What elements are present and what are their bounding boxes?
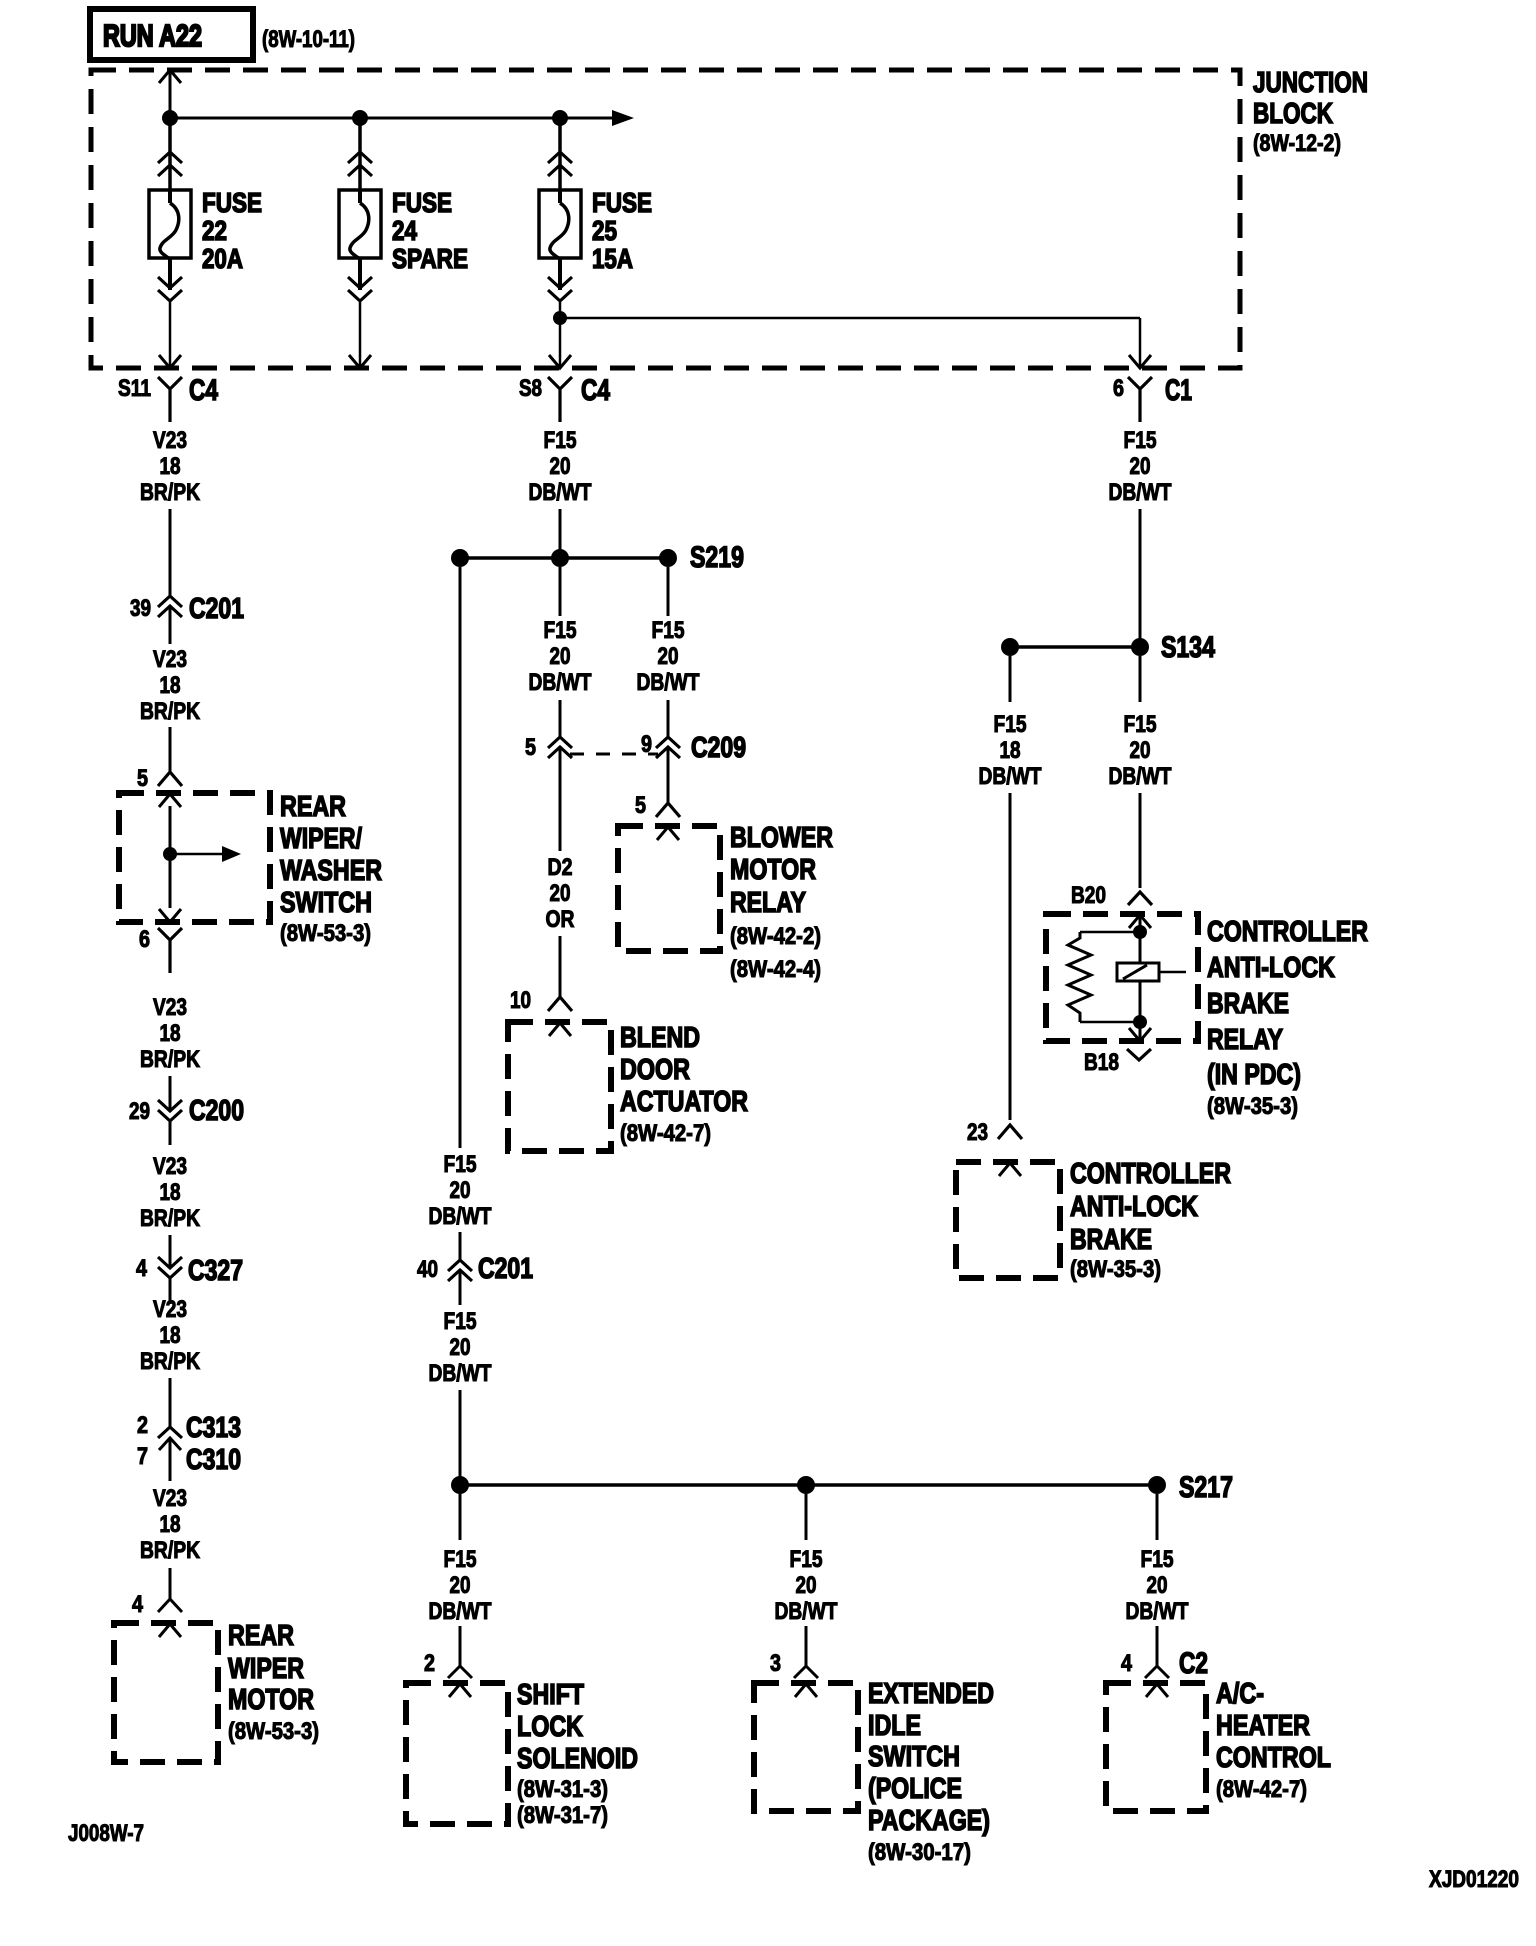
svg-text:S219: S219	[690, 541, 744, 574]
node S219 middle	[551, 549, 569, 567]
wire label F15 20 DB/WT blower branch	[637, 617, 700, 696]
svg-text:OR: OR	[546, 906, 575, 933]
svg-text:20: 20	[1130, 453, 1151, 480]
connector pin B18	[1084, 1049, 1151, 1076]
relay coil bottom node	[1133, 1015, 1147, 1029]
a/c heater control box	[1106, 1683, 1206, 1811]
fuse 24 SPARE	[339, 190, 381, 259]
svg-text:JUNCTION: JUNCTION	[1253, 67, 1368, 99]
svg-text:A/C-: A/C-	[1216, 1678, 1264, 1710]
svg-text:CONTROL: CONTROL	[1216, 1742, 1331, 1774]
svg-text:(8W-42-2): (8W-42-2)	[730, 923, 821, 950]
svg-text:29: 29	[129, 1098, 150, 1125]
connector pin 4 C2	[1121, 1647, 1208, 1680]
wire S134 to relay	[1139, 656, 1142, 888]
svg-text:V23: V23	[153, 994, 187, 1021]
bus arrowhead	[612, 110, 634, 126]
svg-text:C4: C4	[189, 374, 218, 407]
svg-text:C200: C200	[189, 1095, 244, 1127]
label XJD01220	[1429, 1866, 1519, 1893]
connector chevrons above fuse 25	[548, 152, 572, 176]
svg-text:24: 24	[392, 215, 417, 246]
svg-text:18: 18	[1000, 737, 1021, 764]
svg-text:SWITCH: SWITCH	[868, 1741, 960, 1773]
wire S217 to extended idle switch	[805, 1494, 808, 1666]
svg-text:S217: S217	[1179, 1471, 1233, 1504]
node S134 left	[1001, 638, 1019, 656]
extended idle switch box	[754, 1683, 858, 1811]
label JUNCTION BLOCK (8W-12-2)	[1253, 67, 1368, 157]
svg-text:C201: C201	[189, 593, 244, 625]
junction node at fuse 24	[352, 110, 368, 126]
svg-text:WASHER: WASHER	[280, 855, 382, 887]
connector S8 C4	[519, 374, 610, 422]
svg-text:BLEND: BLEND	[620, 1022, 700, 1054]
arrow into blower motor relay	[657, 827, 679, 840]
svg-text:20A: 20A	[202, 243, 243, 274]
svg-text:BR/PK: BR/PK	[140, 1348, 201, 1375]
relay coil	[1117, 963, 1186, 981]
svg-text:F15: F15	[994, 711, 1027, 738]
svg-text:DB/WT: DB/WT	[637, 669, 700, 696]
relay coil top node	[1133, 925, 1147, 939]
svg-text:20: 20	[796, 1572, 817, 1599]
label BLOWER MOTOR RELAY (8W-42-2) (8W-42-4)	[730, 822, 833, 983]
wire label F15 20 DB/WT extended idle	[775, 1546, 838, 1625]
label BLEND DOOR ACTUATOR (8W-42-7)	[620, 1022, 748, 1147]
svg-text:BR/PK: BR/PK	[140, 479, 201, 506]
svg-text:C310: C310	[186, 1444, 241, 1476]
wire label F15 20 DB/WT below C201	[429, 1308, 492, 1387]
svg-text:BR/PK: BR/PK	[140, 1046, 201, 1073]
rear wiper motor box	[114, 1623, 218, 1762]
svg-text:(8W-12-2): (8W-12-2)	[1253, 130, 1341, 157]
svg-text:PACKAGE): PACKAGE)	[868, 1805, 990, 1837]
wire below fuse 24	[358, 258, 362, 290]
wire fuse 25 to junction block edge	[559, 302, 562, 366]
svg-text:C209: C209	[691, 732, 746, 764]
svg-text:(8W-42-7): (8W-42-7)	[1216, 1776, 1307, 1803]
controller anti-lock brake relay box	[1046, 914, 1198, 1041]
wire S219 to C209	[667, 567, 670, 737]
svg-text:J008W-7: J008W-7	[68, 1820, 144, 1847]
node S217 left	[451, 1476, 469, 1494]
svg-text:5: 5	[137, 765, 148, 792]
svg-text:10: 10	[510, 987, 531, 1014]
blend door actuator box	[508, 1022, 611, 1151]
label A/C-HEATER CONTROL (8W-42-7)	[1216, 1678, 1331, 1803]
svg-text:F15: F15	[1141, 1546, 1174, 1573]
fuse 22 20A	[149, 190, 191, 259]
svg-text:4: 4	[136, 1255, 148, 1282]
rear wiper/washer switch box	[119, 793, 270, 922]
svg-text:BR/PK: BR/PK	[140, 1205, 201, 1232]
svg-text:IDLE: IDLE	[868, 1710, 921, 1742]
svg-text:20: 20	[550, 880, 571, 907]
svg-text:S134: S134	[1161, 631, 1215, 664]
wire label F15 20 DB/WT above C201	[429, 1151, 492, 1230]
svg-text:BR/PK: BR/PK	[140, 698, 201, 725]
connector chevrons below fuse 24	[348, 277, 372, 301]
wire from RUN A22 into junction block	[169, 70, 172, 118]
wire label F15 20 DB/WT blend branch	[529, 617, 592, 696]
wire label V23 18 BR/PK	[140, 646, 201, 725]
svg-text:SHIFT: SHIFT	[517, 1679, 584, 1711]
svg-text:(8W-31-3): (8W-31-3)	[517, 1776, 608, 1803]
svg-text:(8W-42-4): (8W-42-4)	[730, 956, 821, 983]
arrow into relay box	[1129, 915, 1151, 928]
svg-text:V23: V23	[153, 1485, 187, 1512]
connector pin 5 rear wiper/washer switch	[137, 765, 182, 792]
svg-text:18: 18	[160, 1179, 181, 1206]
wire S134 to controller anti-lock brake	[1009, 656, 1012, 1120]
svg-text:CONTROLLER: CONTROLLER	[1070, 1158, 1231, 1190]
svg-text:FUSE: FUSE	[202, 187, 262, 218]
svg-text:5: 5	[525, 734, 536, 761]
connector mate dashes to C209	[570, 753, 658, 756]
connector chevrons below fuse 22	[158, 277, 182, 301]
svg-text:3: 3	[770, 1650, 781, 1677]
svg-text:DB/WT: DB/WT	[529, 479, 592, 506]
arrow into a/c heater control	[1146, 1684, 1168, 1697]
splice S219 bus	[460, 556, 668, 560]
label RUN A22	[103, 18, 202, 53]
wire S217 to a/c heater control	[1156, 1494, 1159, 1666]
svg-text:DB/WT: DB/WT	[1109, 763, 1172, 790]
svg-text:C1: C1	[1165, 374, 1192, 407]
svg-text:(8W-42-7): (8W-42-7)	[620, 1120, 711, 1147]
svg-text:4: 4	[132, 1591, 144, 1618]
svg-text:LOCK: LOCK	[517, 1711, 583, 1743]
svg-text:(8W-35-3): (8W-35-3)	[1070, 1256, 1161, 1283]
svg-text:HEATER: HEATER	[1216, 1710, 1310, 1742]
svg-text:18: 18	[160, 672, 181, 699]
label (8W-10-11)	[262, 26, 355, 53]
label FUSE 25 15A	[592, 187, 652, 274]
arrow out of switch box	[159, 909, 181, 922]
svg-text:6: 6	[139, 926, 150, 953]
svg-text:C2: C2	[1179, 1647, 1208, 1680]
arrow into extended idle switch	[795, 1684, 817, 1697]
svg-text:40: 40	[417, 1256, 438, 1283]
arrow into rear wiper motor	[159, 1624, 181, 1637]
svg-text:C313: C313	[186, 1412, 241, 1444]
svg-text:7: 7	[137, 1443, 148, 1470]
wire below fuse 22	[168, 258, 172, 290]
label J008W-7	[68, 1820, 144, 1847]
wire C201 to S217	[459, 1270, 462, 1478]
splice S134 bus	[1010, 645, 1140, 649]
wire relay bottom	[1139, 981, 1142, 1040]
label S219	[690, 541, 744, 574]
connector pin 4 C327	[136, 1255, 243, 1287]
svg-text:23: 23	[967, 1119, 988, 1146]
svg-text:F15: F15	[1124, 711, 1157, 738]
arrow into shift lock solenoid	[449, 1684, 471, 1697]
fuse 25 15A	[539, 190, 581, 259]
svg-text:V23: V23	[153, 646, 187, 673]
arrow crossing junction block bottom border x=170	[159, 355, 181, 368]
arrow crossing junction block top border	[159, 70, 181, 83]
switch wiper arrow	[170, 846, 241, 862]
label SHIFT LOCK SOLENOID (8W-31-3) (8W-31-7)	[517, 1679, 638, 1829]
svg-text:S11: S11	[118, 375, 151, 402]
connector pin B20	[1071, 882, 1152, 909]
wire C1 to S134	[1139, 509, 1142, 640]
svg-text:DB/WT: DB/WT	[429, 1598, 492, 1625]
arrow into switch box	[159, 794, 181, 807]
wire C209 to blower motor relay	[667, 747, 670, 803]
svg-text:22: 22	[202, 215, 227, 246]
node S134 right	[1131, 638, 1149, 656]
label S217	[1179, 1471, 1233, 1504]
svg-text:20: 20	[1130, 737, 1151, 764]
svg-text:18: 18	[160, 1020, 181, 1047]
wire C201 to rear wiper/washer switch	[169, 727, 172, 772]
svg-text:BLOCK: BLOCK	[1253, 98, 1333, 130]
node S219 left	[451, 549, 469, 567]
svg-text:SOLENOID: SOLENOID	[517, 1743, 638, 1775]
svg-text:WIPER/: WIPER/	[280, 823, 362, 855]
svg-text:RUN A22: RUN A22	[103, 18, 202, 53]
wire below fuse 25	[558, 258, 562, 290]
wire label D2 20 OR	[546, 854, 575, 933]
svg-text:(IN PDC): (IN PDC)	[1207, 1059, 1301, 1091]
wire S217 to shift lock solenoid	[459, 1494, 462, 1666]
svg-text:(8W-31-7): (8W-31-7)	[517, 1802, 608, 1829]
svg-text:F15: F15	[444, 1546, 477, 1573]
svg-text:2: 2	[424, 1650, 435, 1677]
wire C310 to rear wiper motor	[169, 1568, 172, 1599]
svg-text:F15: F15	[444, 1151, 477, 1178]
connector pin 29 C200	[129, 1095, 244, 1127]
connector pin 4 rear wiper motor	[132, 1591, 182, 1618]
svg-text:D2: D2	[548, 854, 573, 881]
svg-text:BR/PK: BR/PK	[140, 1537, 201, 1564]
svg-text:18: 18	[160, 453, 181, 480]
svg-text:4: 4	[1121, 1650, 1133, 1677]
svg-text:B20: B20	[1071, 882, 1106, 909]
connector S11 C4	[118, 374, 218, 422]
connector pin 6 C1	[1113, 374, 1192, 422]
svg-text:MOTOR: MOTOR	[730, 854, 816, 886]
svg-text:6: 6	[1113, 375, 1124, 402]
connector pin 5 blower motor relay	[635, 792, 680, 819]
svg-text:RELAY: RELAY	[730, 887, 806, 919]
wire bus to fuse 24	[358, 118, 362, 190]
connector pin 39 C201	[130, 593, 244, 625]
wire fuse 24 to junction block edge	[359, 302, 362, 366]
wire bus to fuse 22	[168, 118, 172, 190]
svg-text:DB/WT: DB/WT	[1109, 479, 1172, 506]
svg-text:BRAKE: BRAKE	[1070, 1224, 1152, 1256]
node S217 right	[1148, 1476, 1166, 1494]
node S217 middle	[797, 1476, 815, 1494]
svg-text:39: 39	[130, 595, 151, 622]
wire C4 to C201	[169, 509, 172, 644]
svg-text:F15: F15	[544, 427, 577, 454]
svg-text:25: 25	[592, 215, 617, 246]
svg-text:EXTENDED: EXTENDED	[868, 1678, 994, 1710]
label CONTROLLER ANTI-LOCK BRAKE (8W-35-3)	[1070, 1158, 1231, 1283]
svg-text:20: 20	[450, 1177, 471, 1204]
svg-text:F15: F15	[544, 617, 577, 644]
connector pin 3 extended idle switch	[770, 1650, 818, 1678]
node RUN A22 feed box	[90, 9, 253, 60]
connector pin 2 shift lock solenoid	[424, 1650, 472, 1678]
wire fuse 22 to junction block edge	[169, 302, 172, 366]
svg-text:2: 2	[137, 1412, 148, 1439]
svg-text:9: 9	[641, 731, 652, 758]
svg-text:DB/WT: DB/WT	[1126, 1598, 1189, 1625]
wire pin5 to blend door actuator	[559, 747, 562, 997]
svg-text:(8W-53-3): (8W-53-3)	[228, 1718, 319, 1745]
wire label F15 20 DB/WT shift lock	[429, 1546, 492, 1625]
wire C200 to C327	[169, 1235, 172, 1304]
svg-text:FUSE: FUSE	[592, 187, 652, 218]
svg-text:SPARE: SPARE	[392, 243, 468, 274]
connector chevrons above fuse 22	[158, 152, 182, 176]
svg-text:20: 20	[450, 1572, 471, 1599]
wire label V23 18 BR/PK	[140, 1153, 201, 1232]
svg-text:V23: V23	[153, 1296, 187, 1323]
svg-text:DB/WT: DB/WT	[529, 669, 592, 696]
svg-text:DB/WT: DB/WT	[429, 1360, 492, 1387]
svg-text:REAR: REAR	[280, 791, 346, 823]
connector chevrons below fuse 25	[548, 277, 572, 301]
node S219 right	[659, 549, 677, 567]
svg-text:18: 18	[160, 1511, 181, 1538]
svg-text:DB/WT: DB/WT	[979, 763, 1042, 790]
label FUSE 24 SPARE	[392, 187, 468, 274]
svg-text:FUSE: FUSE	[392, 187, 452, 218]
svg-text:(POLICE: (POLICE	[868, 1773, 962, 1805]
connector chevrons above fuse 24	[348, 152, 372, 176]
connector pin 9 C209	[641, 731, 746, 764]
wire label V23 18 BR/PK	[140, 1296, 201, 1375]
label REAR WIPER MOTOR (8W-53-3)	[228, 1620, 319, 1745]
resistor in relay	[1068, 932, 1140, 1022]
svg-text:CONTROLLER: CONTROLLER	[1207, 916, 1368, 948]
wire inside switch	[169, 806, 172, 908]
label CONTROLLER ANTI-LOCK BRAKE RELAY (IN PDC) (8W-35-3)	[1207, 916, 1368, 1120]
arrow into blend door actuator	[549, 1023, 571, 1036]
svg-text:DB/WT: DB/WT	[429, 1203, 492, 1230]
connector pin 7 C310	[137, 1438, 241, 1481]
svg-text:20: 20	[658, 643, 679, 670]
svg-text:ANTI-LOCK: ANTI-LOCK	[1070, 1191, 1198, 1223]
svg-text:DOOR: DOOR	[620, 1054, 690, 1086]
controller anti-lock brake box	[956, 1162, 1060, 1278]
label FUSE 22 20A	[202, 187, 262, 274]
wire fuse 25 tap to C1	[553, 311, 1140, 366]
connector pin 23 controller anti-lock brake	[967, 1119, 1022, 1146]
arrow crossing junction block bottom border x=1140	[1129, 355, 1151, 368]
wire C4 to S219	[559, 509, 562, 552]
wire C327 to C313	[169, 1378, 172, 1427]
svg-text:SWITCH: SWITCH	[280, 887, 372, 919]
svg-text:MOTOR: MOTOR	[228, 1684, 314, 1716]
wire label F15 20 DB/WT relay branch	[1109, 711, 1172, 790]
wire bus to fuse 25	[558, 118, 562, 190]
svg-text:BLOWER: BLOWER	[730, 822, 833, 854]
svg-text:RELAY: RELAY	[1207, 1024, 1283, 1056]
svg-text:S8: S8	[519, 375, 542, 402]
svg-text:V23: V23	[153, 427, 187, 454]
connector pin 6 below switch	[139, 926, 182, 973]
connector pin 2 C313	[137, 1412, 241, 1444]
wire label F15 20 DB/WT below S8 C4	[529, 427, 592, 506]
svg-text:F15: F15	[652, 617, 685, 644]
svg-text:C4: C4	[581, 374, 610, 407]
svg-text:5: 5	[635, 792, 646, 819]
svg-text:20: 20	[550, 643, 571, 670]
svg-text:20: 20	[550, 453, 571, 480]
wire relay top	[1139, 915, 1142, 963]
splice S217 bus	[460, 1483, 1157, 1487]
svg-text:15A: 15A	[592, 243, 633, 274]
svg-text:(8W-30-17): (8W-30-17)	[868, 1839, 971, 1866]
wire label V23 18 BR/PK	[140, 994, 201, 1073]
junction node at fuse 25	[552, 110, 568, 126]
wire label V23 18 BR/PK	[140, 427, 201, 506]
label REAR WIPER/WASHER SWITCH (8W-53-3)	[280, 791, 382, 947]
switch wiper node	[163, 847, 177, 861]
shift lock solenoid box	[406, 1683, 508, 1824]
connector pin 10 blend door actuator	[510, 987, 572, 1014]
blower motor relay box	[618, 826, 720, 951]
wire switch to C200	[169, 1076, 172, 1145]
junction node at fuse 22	[162, 110, 178, 126]
wire S219 to C201 pin 40	[459, 567, 462, 1260]
svg-text:BRAKE: BRAKE	[1207, 988, 1289, 1020]
wire label F15 20 DB/WT below C1	[1109, 427, 1172, 506]
svg-text:F15: F15	[1124, 427, 1157, 454]
junction block boundary	[91, 70, 1240, 368]
svg-text:20: 20	[450, 1334, 471, 1361]
connector pin 40 C201	[417, 1253, 533, 1285]
svg-text:ACTUATOR: ACTUATOR	[620, 1086, 748, 1118]
arrow into controller anti-lock brake	[999, 1163, 1021, 1176]
arrow crossing junction block bottom border x=560	[549, 355, 571, 368]
svg-text:WIPER: WIPER	[228, 1653, 304, 1685]
wire S219 to pin5 connector	[559, 567, 562, 737]
wire label V23 18 BR/PK	[140, 1485, 201, 1564]
svg-text:(8W-53-3): (8W-53-3)	[280, 920, 371, 947]
label EXTENDED IDLE SWITCH (POLICE PACKAGE) (8W-30-17)	[868, 1678, 994, 1866]
wire label F15 20 DB/WT a/c heater	[1126, 1546, 1189, 1625]
svg-text:F15: F15	[444, 1308, 477, 1335]
wire bus to fuses	[170, 117, 612, 120]
svg-text:C201: C201	[478, 1253, 533, 1285]
svg-text:18: 18	[160, 1322, 181, 1349]
svg-text:(8W-10-11): (8W-10-11)	[262, 26, 355, 53]
svg-text:B18: B18	[1084, 1049, 1119, 1076]
arrow out of relay box	[1129, 1028, 1151, 1041]
svg-text:20: 20	[1147, 1572, 1168, 1599]
svg-text:F15: F15	[790, 1546, 823, 1573]
svg-text:DB/WT: DB/WT	[775, 1598, 838, 1625]
svg-text:V23: V23	[153, 1153, 187, 1180]
svg-text:XJD01220: XJD01220	[1429, 1866, 1519, 1893]
svg-text:C327: C327	[188, 1255, 243, 1287]
connector pin 5 blend branch	[525, 734, 572, 761]
arrow crossing junction block bottom border x=360	[349, 355, 371, 368]
label S134	[1161, 631, 1215, 664]
svg-text:REAR: REAR	[228, 1620, 294, 1652]
svg-text:ANTI-LOCK: ANTI-LOCK	[1207, 952, 1335, 984]
svg-text:(8W-35-3): (8W-35-3)	[1207, 1093, 1298, 1120]
